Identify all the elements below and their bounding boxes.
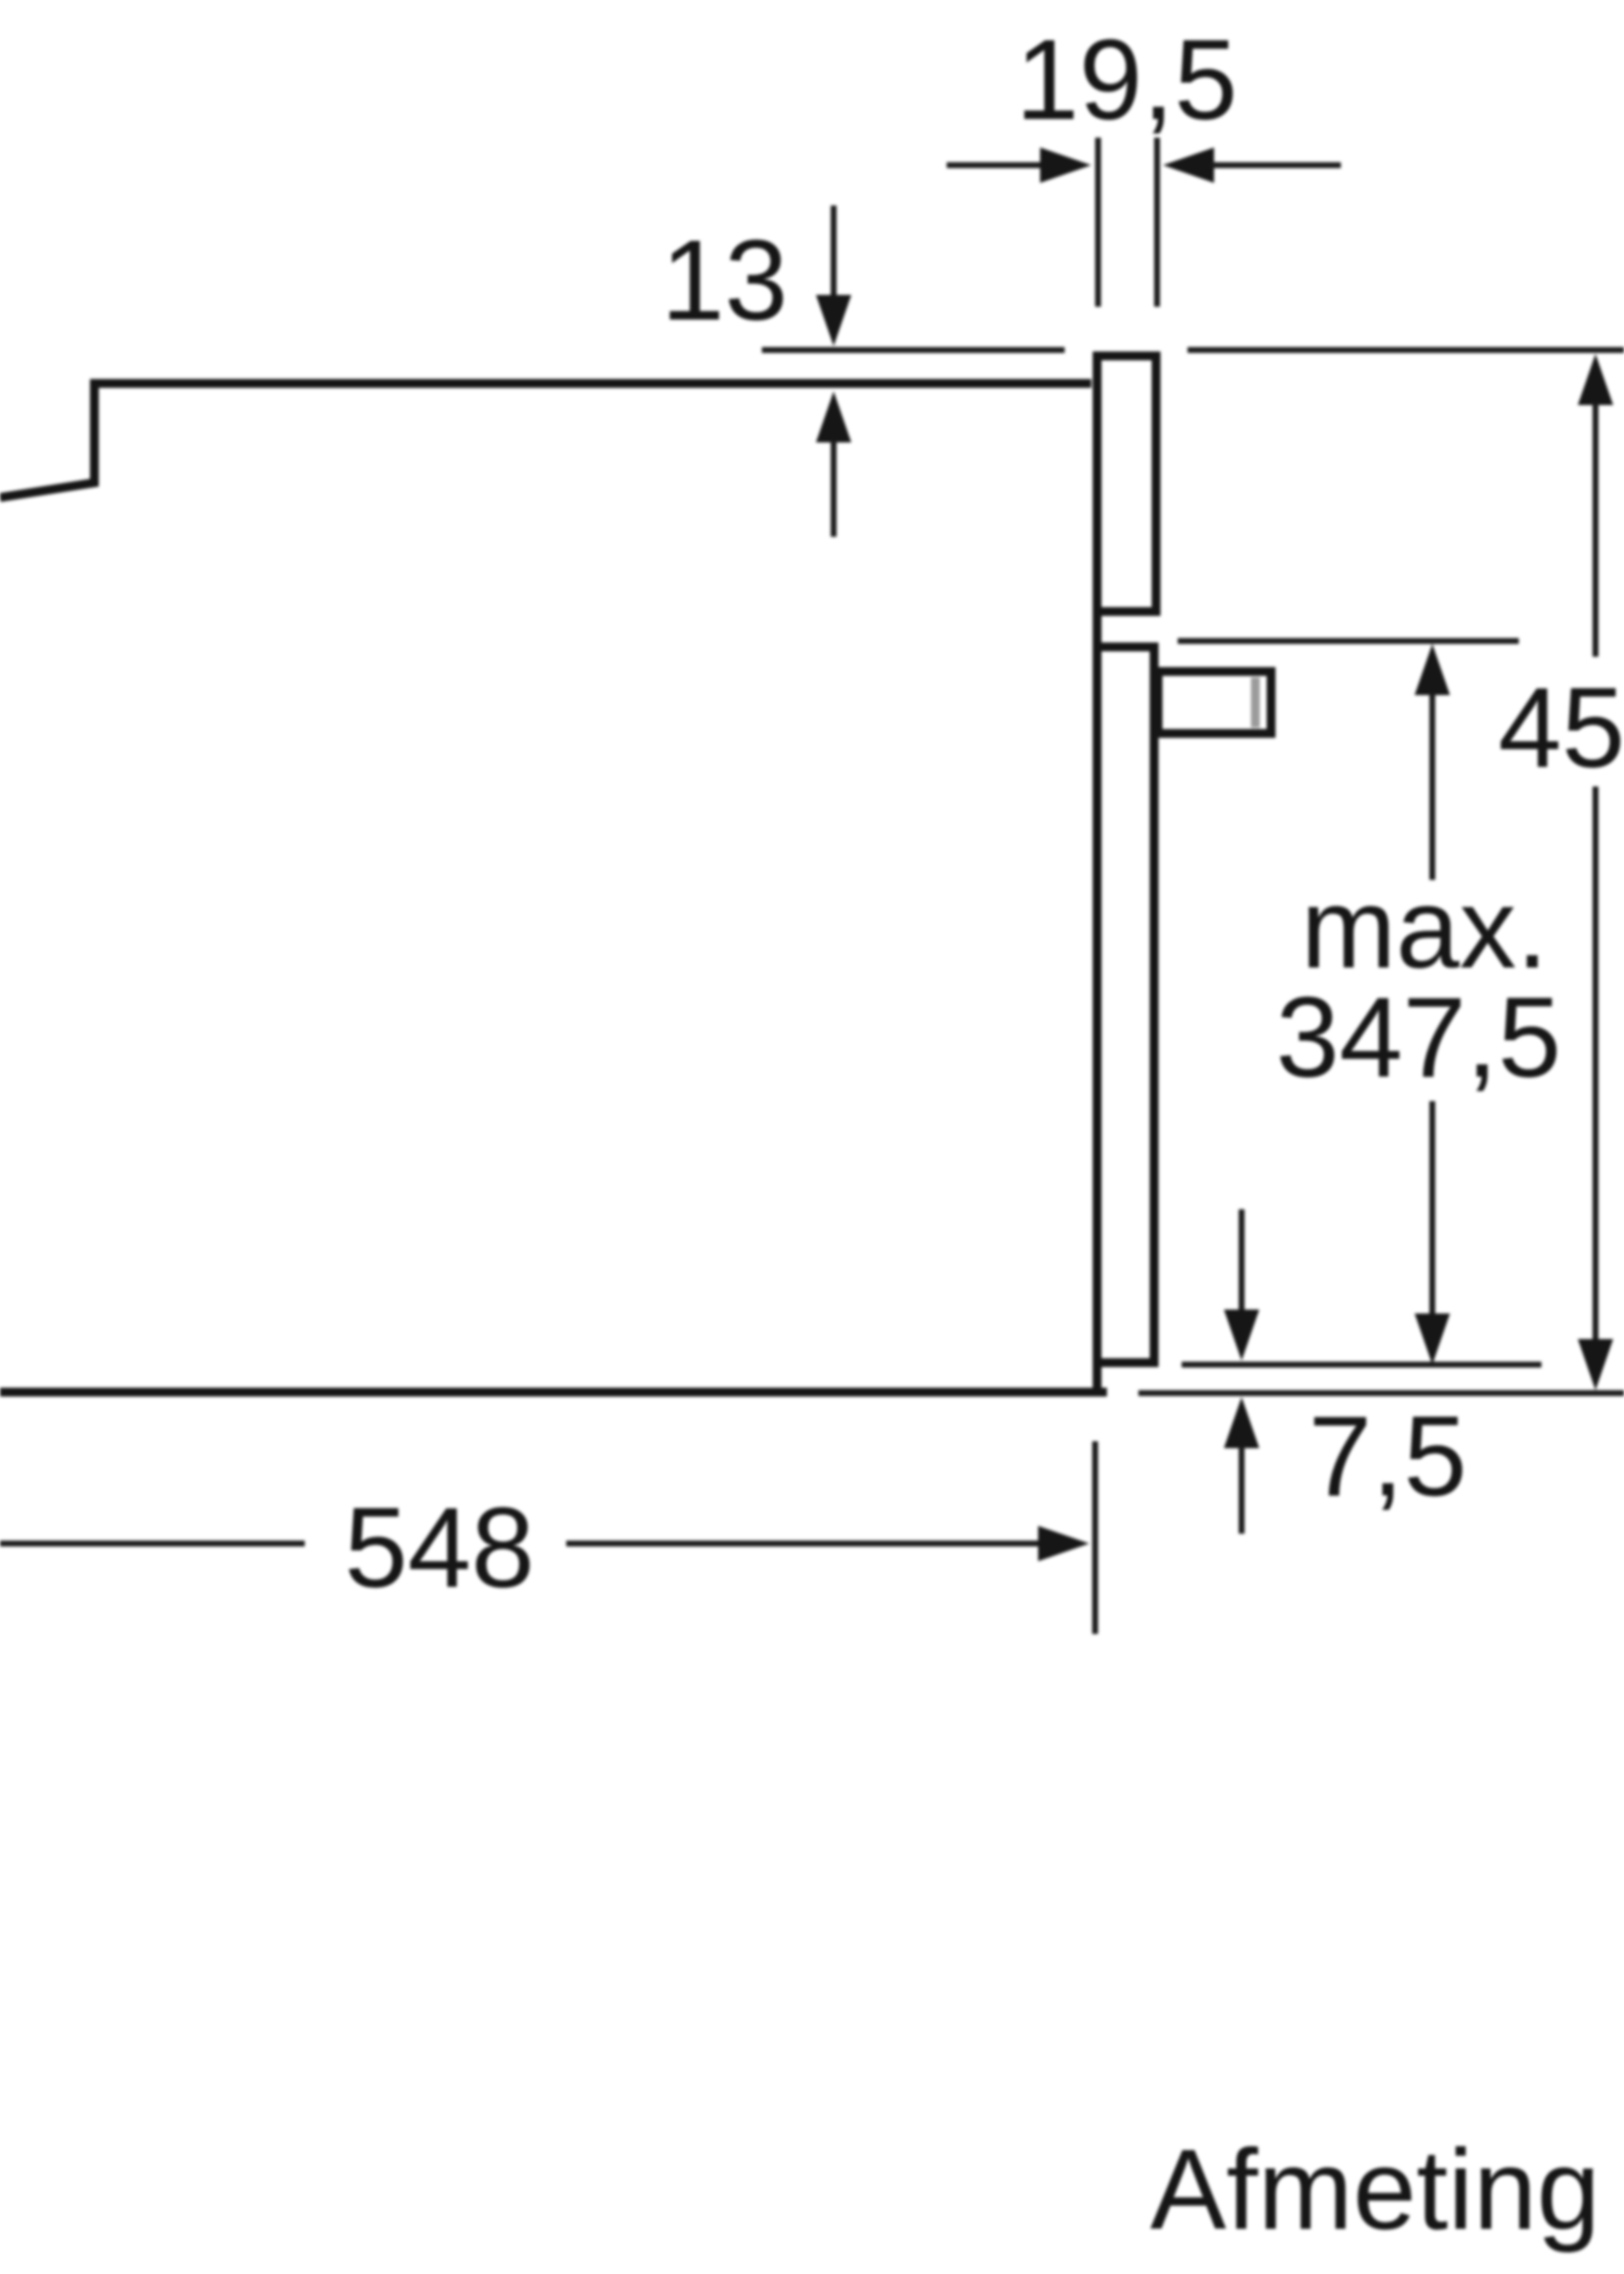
svg-text:Afmeting: Afmeting (1150, 2126, 1600, 2253)
svg-text:548: 548 (344, 1484, 535, 1611)
svg-text:13: 13 (661, 216, 787, 344)
svg-text:19,5: 19,5 (1015, 16, 1238, 144)
svg-text:347,5: 347,5 (1276, 973, 1561, 1101)
svg-text:7,5: 7,5 (1308, 1392, 1467, 1520)
svg-text:455: 455 (1498, 664, 1624, 791)
